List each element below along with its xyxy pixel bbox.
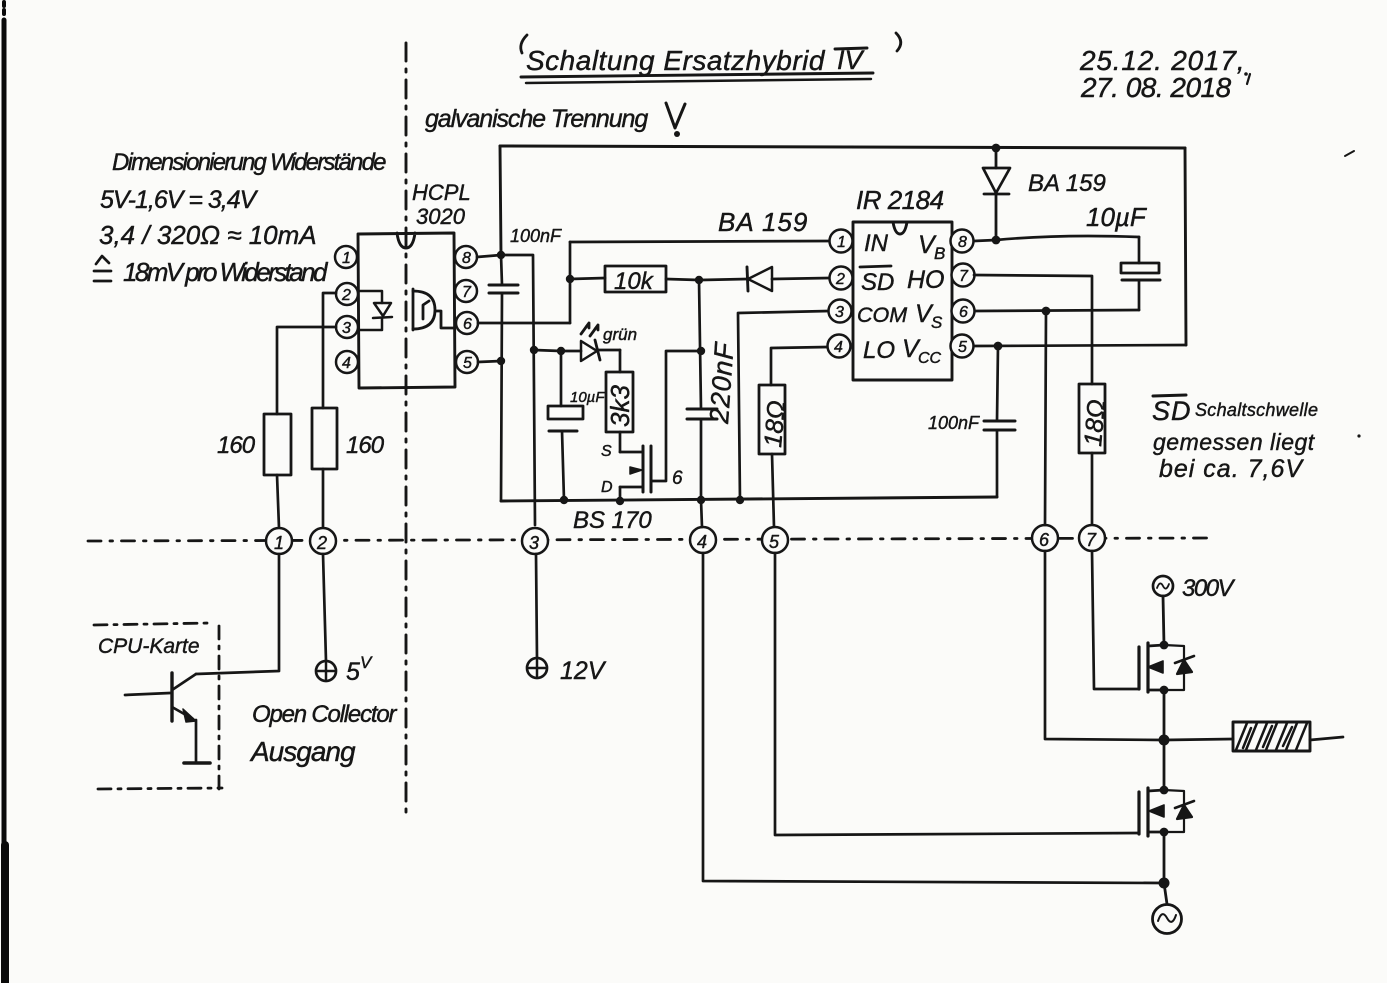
U1 internal phototransistor: [413, 289, 454, 330]
svg-text:2: 2: [341, 287, 351, 304]
U2 pin 1: [830, 230, 853, 253]
wire node5 down to Q5 gate: [775, 553, 1139, 835]
supply terminal +5V: [316, 653, 373, 686]
svg-text:Schaltschwelle: Schaltschwelle: [1195, 400, 1318, 420]
svg-text:4: 4: [697, 532, 707, 552]
U2 pin 8: [951, 230, 974, 253]
U2 pin label SD with overline: [860, 266, 894, 296]
resistor R5 18R (low side gate): [759, 385, 791, 454]
junction dot 10k right / 220nF column: [695, 276, 703, 284]
svg-text:18Ω: 18Ω: [759, 399, 791, 448]
ground symbol (CPU emitter): [184, 761, 210, 765]
svg-text:CC: CC: [918, 350, 942, 367]
wire R5 to node 5: [772, 454, 774, 527]
resistor R2 160 (left): [217, 414, 291, 475]
scan border left edge: [4, 2, 5, 983]
svg-text:8: 8: [958, 234, 967, 251]
svg-text:1: 1: [274, 533, 284, 553]
svg-text:4: 4: [342, 355, 351, 372]
junction dot 10uF to ground rail: [560, 496, 568, 504]
U2 pin 4: [828, 335, 851, 358]
junction dot VCC node: [994, 342, 1003, 351]
wire 300V to Q4 drain: [1163, 596, 1164, 645]
supply terminal +12V: [527, 657, 607, 685]
wire load right stub: [1310, 737, 1343, 740]
wire U2 pin6 VS to C5 bottom: [975, 310, 1139, 311]
U2 pin 3: [829, 300, 852, 323]
svg-text:5: 5: [958, 339, 967, 356]
junction dot LED branch tap: [530, 346, 538, 354]
svg-text:3,4 / 320Ω ≈ 10mA: 3,4 / 320Ω ≈ 10mA: [99, 220, 317, 250]
MOSFET Q5 (low side): [1139, 786, 1168, 837]
svg-text:3k3: 3k3: [605, 385, 635, 427]
U2 pin 6: [952, 300, 975, 323]
svg-text:1: 1: [342, 250, 351, 267]
junction dot VS / node6 column: [1042, 307, 1051, 316]
wire top rail left drop to U1 pin8 node: [500, 146, 501, 255]
svg-text:D: D: [601, 479, 613, 496]
svg-text:B: B: [934, 244, 945, 263]
svg-text:10µF: 10µF: [1086, 202, 1148, 232]
svg-text:gemessen liegt: gemessen liegt: [1153, 429, 1316, 455]
label: galvanische Trennung with down arrow: [425, 103, 685, 137]
capacitor C3 220nF: [687, 280, 740, 500]
svg-text:CPU-Karte: CPU-Karte: [98, 635, 200, 658]
note: Dimensionierung Widerstaende text block: [94, 149, 386, 287]
wire Q4 source to phase node: [1163, 690, 1166, 740]
capacitor C1 100nF (HCPL supply): [489, 226, 562, 501]
wire R2 bottom to node 1: [277, 475, 279, 528]
svg-text:6: 6: [1039, 530, 1050, 550]
svg-text:3: 3: [529, 533, 539, 553]
svg-text:6: 6: [463, 316, 472, 333]
svg-text:IR 2184: IR 2184: [856, 185, 944, 215]
svg-text:Schaltung Ersatzhybrid: Schaltung Ersatzhybrid: [526, 45, 826, 76]
node 1: [266, 528, 292, 554]
output terminal ~: [1153, 883, 1182, 934]
capacitor C4 100nF (VCC decoupling): [928, 346, 1015, 497]
wire supply right edge: [1185, 148, 1186, 345]
dates 25.12.2017 / 27.08.2018: [1079, 45, 1245, 103]
junction dot COM to ground rail: [736, 496, 744, 504]
svg-text:18Ω: 18Ω: [1079, 398, 1111, 447]
svg-text:SD: SD: [861, 269, 894, 296]
U1 pin 6: [456, 312, 478, 334]
U1 internal LED: [359, 291, 392, 330]
wire U1 pin6 to IN column: [478, 322, 570, 325]
wire R6 to node 7: [1091, 453, 1094, 525]
wire BS170 gate up to 220nF node: [651, 351, 701, 481]
svg-text:300V: 300V: [1182, 575, 1236, 602]
node 3: [522, 528, 548, 554]
svg-text:10k: 10k: [614, 268, 655, 295]
wire node4 up to ground rail: [701, 500, 702, 527]
resistor R1 160 (right): [312, 408, 385, 469]
U2 pin 7: [952, 264, 975, 287]
wire 12V column from pin8 node down to node 3: [501, 255, 535, 525]
svg-text:HO: HO: [907, 266, 945, 294]
label Open Collector Ausgang: [249, 701, 397, 767]
LED D3 gruen: [561, 323, 637, 361]
wire IN column vertical: [569, 242, 572, 323]
resistor R3 3k3: [605, 350, 635, 452]
U1 pin 2: [336, 283, 358, 305]
svg-text:160: 160: [217, 432, 256, 459]
wire IN net to U2 pin1: [570, 241, 830, 242]
U1 pin 7: [455, 280, 477, 302]
node 2: [310, 528, 336, 554]
junction dot gate tap on 220nF column: [697, 347, 705, 355]
title: Schaltung Ersatzhybrid IV: [521, 33, 901, 83]
svg-text:5: 5: [346, 658, 360, 686]
wire U2 pin4 LO to R5: [771, 347, 828, 385]
node 7: [1079, 525, 1105, 551]
wire Q5 source to output node: [1163, 832, 1166, 883]
svg-text:S: S: [601, 443, 612, 460]
wire phase node to load: [1164, 739, 1233, 740]
svg-text:3020: 3020: [416, 204, 466, 229]
junction dot pin5 node: [497, 357, 505, 365]
node 4: [690, 527, 716, 553]
svg-text:7: 7: [1086, 530, 1097, 550]
svg-text:12V: 12V: [560, 657, 607, 685]
capacitor C2 10uF electrolytic: [548, 351, 605, 500]
svg-text:27. 08. 2018: 27. 08. 2018: [1080, 72, 1232, 103]
transistor Q1 (open collector NPN): [125, 673, 196, 761]
svg-text:LO: LO: [863, 337, 895, 364]
U1 pin 1: [335, 246, 357, 268]
svg-text:3: 3: [342, 320, 351, 337]
wire phase node to Q5 drain: [1163, 740, 1166, 790]
junction dot output node: [1159, 878, 1170, 889]
svg-text:BA 159: BA 159: [718, 207, 808, 237]
body diode of Q5: [1164, 790, 1194, 832]
svg-text:6: 6: [672, 468, 683, 489]
svg-text:6: 6: [959, 304, 968, 321]
junction dot 10uF tap: [557, 347, 565, 355]
svg-text:Dimensionierung Widerstände: Dimensionierung Widerstände: [112, 149, 386, 176]
wire U2 pin8 VB to bootstrap node: [974, 240, 996, 241]
wire U1 pin5 to ground column: [478, 361, 501, 362]
wire U2 pin5 VCC to right supply edge: [974, 345, 1186, 346]
svg-text:100nF: 100nF: [510, 226, 562, 246]
junction dot VB node: [992, 236, 1001, 245]
svg-text:BA 159: BA 159: [1028, 170, 1106, 197]
svg-text:S: S: [931, 313, 943, 332]
svg-text:COM: COM: [857, 303, 907, 327]
chassis horizontal dash-dot line: [88, 538, 1208, 541]
node 5: [762, 527, 788, 553]
U2 pin 2: [830, 267, 853, 290]
wire node6 up to VS: [1045, 311, 1046, 525]
optocoupler U1 HCPL-3020 body: [358, 233, 455, 388]
resistor R6 18R (high side gate): [1079, 384, 1111, 453]
svg-text:10µF: 10µF: [570, 389, 605, 406]
node 6: [1032, 525, 1058, 551]
scan speck marks: [1244, 72, 1360, 437]
svg-text:Ausgang: Ausgang: [249, 736, 356, 767]
wire tap to LED anode: [534, 350, 561, 351]
svg-text:HCPL: HCPL: [412, 180, 471, 205]
driver U2 IR2184 body: [853, 222, 952, 380]
transistor Q2 BS170: [601, 443, 683, 502]
svg-text:V: V: [360, 653, 373, 672]
svg-text:160: 160: [346, 432, 385, 459]
wire VB node to C5 top: [996, 236, 1139, 240]
svg-text:18mV pro Widerstand: 18mV pro Widerstand: [123, 257, 329, 287]
capacitor C5 10uF bootstrap: [1086, 202, 1160, 310]
wire node7 down to Q4 gate: [1092, 551, 1139, 689]
svg-text:2: 2: [835, 271, 845, 288]
wire node4 down to output node: [703, 553, 1164, 883]
wire node3 down to 12V terminal: [536, 554, 537, 658]
CPU-Karte dash-dot box: [94, 623, 222, 790]
U1 pin 5: [456, 351, 478, 373]
svg-text:7: 7: [959, 268, 969, 285]
U2 pin label VB: [918, 231, 945, 263]
svg-text:5V-1,6V = 3,4V: 5V-1,6V = 3,4V: [100, 186, 259, 214]
U2 pin 5: [951, 335, 974, 358]
note: SD Schaltschwelle text block: [1152, 395, 1318, 483]
svg-text:bei ca. 7,6V: bei ca. 7,6V: [1159, 455, 1304, 483]
wire R1 bottom to node 2: [322, 469, 325, 528]
U1 pin 8: [455, 246, 477, 268]
U1 pin 4: [336, 351, 358, 373]
wire node2 down to 5V terminal: [323, 554, 326, 661]
svg-text:7: 7: [462, 284, 472, 301]
svg-text:100nF: 100nF: [928, 413, 980, 433]
svg-text:BS 170: BS 170: [573, 507, 652, 534]
svg-text:3: 3: [835, 304, 844, 321]
svg-text:8: 8: [462, 250, 471, 267]
supply terminal ~300V: [1153, 575, 1236, 602]
junction dot 220nF to ground rail: [697, 496, 705, 504]
wire U2 pin7 HO to R6 column: [974, 275, 1092, 384]
MOSFET Q4 (high side): [1139, 641, 1168, 695]
load (hatched box): [1233, 722, 1310, 751]
junction dot 10k left / IN column: [566, 275, 574, 283]
U2 pin label VCC: [902, 335, 942, 367]
diode D1 BA159 (bootstrap): [983, 144, 1010, 240]
U2 pin label VS: [915, 300, 943, 332]
svg-text:1: 1: [837, 234, 846, 251]
diode D2 BA159 (SD line): [701, 267, 829, 291]
svg-text:2: 2: [316, 533, 327, 553]
wire U2 pin3 COM to ground rail: [738, 311, 829, 501]
svg-text:5: 5: [463, 355, 472, 372]
svg-text:galvanische Trennung: galvanische Trennung: [425, 105, 648, 133]
svg-text:IN: IN: [864, 230, 889, 257]
svg-text:Open Collector: Open Collector: [252, 701, 397, 728]
wire U1 pin2 to R1 top: [323, 293, 336, 408]
junction dot BS170 drain to ground rail: [616, 497, 624, 505]
body diode of Q4: [1164, 645, 1194, 690]
wire top supply rail: [500, 146, 1185, 148]
wire ground rail (local GND): [501, 497, 997, 501]
svg-text:SD: SD: [1152, 396, 1192, 426]
wire U1 pin3 to R2 top: [277, 327, 336, 414]
wire U1 pin8 to junction: [477, 255, 501, 257]
junction dot pin8 node: [497, 251, 505, 259]
isolation boundary vertical dash-dot line: [405, 43, 408, 820]
wire node1 down to transistor collector: [196, 554, 279, 674]
resistor R4 10k: [570, 266, 699, 295]
svg-text:220nF: 220nF: [704, 340, 740, 425]
wire node6 down to phase node: [1045, 551, 1164, 740]
U1 pin 3: [336, 316, 358, 338]
junction dot phase node: [1159, 735, 1170, 746]
svg-text:grün: grün: [603, 325, 637, 344]
svg-text:5: 5: [769, 532, 780, 552]
svg-text:4: 4: [834, 339, 843, 356]
